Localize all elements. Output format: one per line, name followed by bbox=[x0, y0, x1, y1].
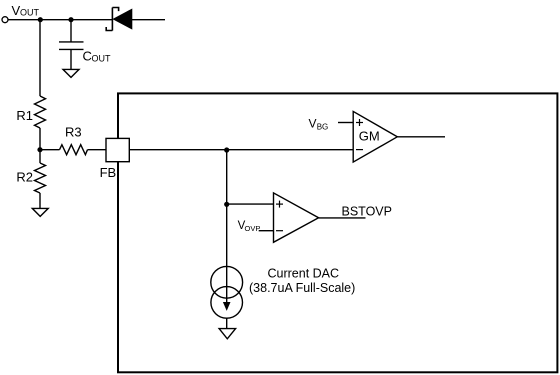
svg-text:C: C bbox=[83, 49, 92, 64]
svg-text:GM: GM bbox=[359, 129, 380, 144]
svg-text:OUT: OUT bbox=[20, 8, 40, 18]
svg-text:BG: BG bbox=[317, 123, 329, 132]
svg-text:V: V bbox=[309, 117, 317, 131]
svg-text:Current DAC: Current DAC bbox=[268, 267, 340, 281]
svg-text:BSTOVP: BSTOVP bbox=[342, 205, 392, 219]
svg-text:(38.7uA Full-Scale): (38.7uA Full-Scale) bbox=[249, 281, 355, 295]
svg-text:R1: R1 bbox=[16, 108, 33, 123]
svg-text:OUT: OUT bbox=[92, 54, 112, 64]
svg-text:R3: R3 bbox=[65, 125, 82, 140]
svg-text:R2: R2 bbox=[16, 169, 33, 184]
svg-text:OVP: OVP bbox=[245, 224, 261, 233]
svg-text:FB: FB bbox=[100, 165, 117, 180]
